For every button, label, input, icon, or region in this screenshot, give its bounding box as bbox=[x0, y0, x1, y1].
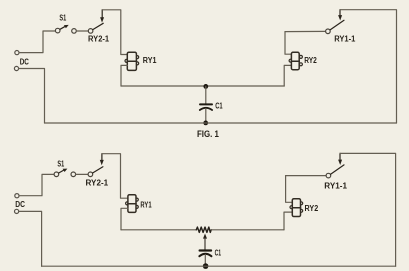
relay contact RY2-1 blade bbox=[93, 167, 103, 173]
wire bottom rail bbox=[42, 265, 396, 267]
wire middle rail up to RY2 coil bottom bbox=[284, 65, 291, 86]
capacitor C1 (bottom circuit) bbox=[200, 249, 212, 251]
wire junction to C1 bbox=[205, 86, 207, 103]
switch S1 pivot contact bbox=[54, 172, 59, 177]
svg-text:C1: C1 bbox=[215, 102, 223, 111]
svg-text:RY1: RY1 bbox=[143, 56, 157, 65]
svg-text:RY1-1: RY1-1 bbox=[324, 181, 347, 190]
actuation arrow onto RY1-1 bbox=[339, 153, 341, 160]
capacitor C1 (top circuit) bbox=[200, 103, 212, 105]
wire C1 to bottom rail bbox=[204, 255, 206, 267]
svg-text:DC: DC bbox=[20, 57, 29, 66]
wire RY1-1 net down to RY2 coil top bbox=[286, 176, 293, 203]
wire DC- down to bottom rail bbox=[19, 211, 42, 266]
wire RY2 top net to RY1-1 contact bbox=[285, 30, 326, 32]
wire between RY2-1 terminals bbox=[76, 30, 88, 32]
svg-text:S1: S1 bbox=[57, 160, 64, 169]
relay contact RY2-1 blade bbox=[93, 23, 103, 29]
relay contact RY1-1 blade bbox=[331, 165, 344, 174]
DC source terminal + (top) bbox=[15, 194, 19, 198]
wire RY2-1 arrow to RY1 coil top bbox=[102, 10, 127, 55]
wire RY1 coil bottom to middle rail bbox=[121, 208, 128, 230]
svg-text:RY2-1: RY2-1 bbox=[88, 35, 110, 44]
wire middle rail up to RY2 coil bottom bbox=[284, 212, 292, 230]
relay coil RY2 bbox=[289, 52, 302, 69]
relay contact RY2-1 pivot terminal bbox=[88, 29, 93, 34]
svg-text:C1: C1 bbox=[215, 249, 222, 258]
wire C1 to bottom rail bbox=[205, 109, 207, 123]
wire DC+ to S1 bbox=[19, 31, 55, 53]
svg-text:S1: S1 bbox=[59, 14, 66, 23]
node junction top of C1 bbox=[203, 84, 208, 89]
wire middle rail left segment bbox=[121, 229, 196, 231]
wire middle rail bbox=[121, 85, 284, 87]
wire between RY2-1 terminals bbox=[76, 173, 88, 175]
actuation arrow onto RY1-1 bbox=[339, 10, 341, 16]
relay coil RY1 bbox=[126, 195, 139, 213]
relay contact RY1-1 pivot terminal bbox=[326, 173, 331, 178]
svg-text:RY2: RY2 bbox=[305, 204, 319, 213]
relay contact RY1-1 blade bbox=[330, 20, 344, 30]
relay contact RY1-1 pivot terminal bbox=[326, 29, 331, 34]
rheostat wiper arrow bbox=[203, 234, 207, 239]
wire RY2-1 arrow to RY1 coil top bbox=[102, 154, 128, 199]
wire RY1 coil bottom to middle rail bbox=[121, 65, 127, 86]
relay contact RY2-1 pivot terminal bbox=[88, 172, 93, 177]
resistor (rheostat) in middle rail bbox=[196, 227, 211, 232]
svg-text:RY2-1: RY2-1 bbox=[86, 178, 109, 187]
actuation arrow onto RY2-1 bbox=[101, 10, 103, 18]
wire RY1-1 arrow to right edge and down bbox=[340, 10, 397, 123]
DC source terminal - (bottom) bbox=[14, 66, 18, 70]
svg-text:RY1: RY1 bbox=[140, 201, 152, 210]
DC source terminal - (bottom) bbox=[15, 209, 19, 213]
wire RY1-1 arrow to right edge and down bbox=[340, 153, 396, 266]
node junction bottom of C1 bbox=[203, 121, 208, 126]
actuation arrow onto RY2-1 bbox=[101, 154, 103, 162]
wire bottom rail bbox=[45, 122, 397, 124]
relay coil RY1 bbox=[125, 52, 139, 70]
DC source terminal + (top) bbox=[15, 51, 19, 55]
relay contact RY2-1 left terminal bbox=[71, 172, 76, 177]
svg-text:DC: DC bbox=[15, 200, 25, 209]
switch S1 blade with arrowhead bbox=[60, 26, 65, 29]
node junction bottom of C1 bbox=[203, 263, 209, 269]
wire DC+ to S1 bbox=[19, 174, 54, 195]
svg-text:RY2: RY2 bbox=[304, 56, 317, 65]
relay contact RY2-1 left terminal bbox=[72, 29, 77, 34]
relay coil RY2 bbox=[290, 199, 303, 217]
wire DC- down to bottom rail bbox=[19, 69, 45, 124]
wire middle rail right segment bbox=[211, 229, 284, 231]
wire RY1-1 net down to RY2 coil top bbox=[285, 32, 291, 55]
svg-text:RY1-1: RY1-1 bbox=[334, 34, 356, 43]
switch S1 blade with arrowhead bbox=[59, 170, 64, 173]
switch S1 pivot contact bbox=[55, 28, 60, 33]
wire RY2 top net to RY1-1 contact bbox=[286, 175, 326, 177]
svg-text:FIG. 1: FIG. 1 bbox=[197, 129, 219, 139]
